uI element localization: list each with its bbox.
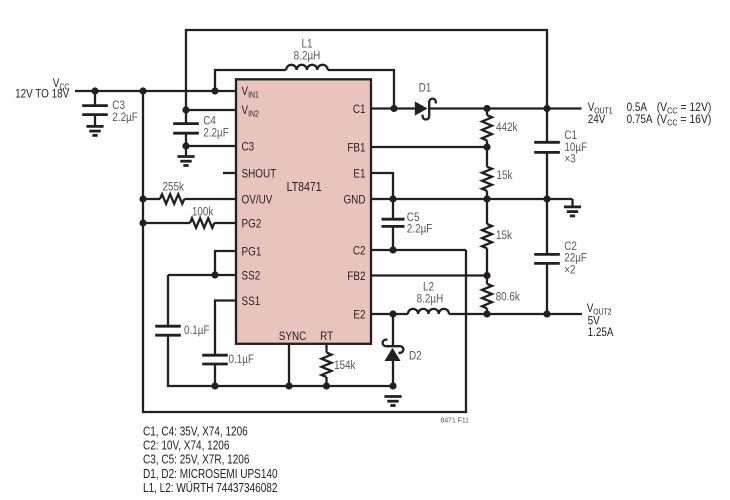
svg-text:C3: C3 — [242, 141, 255, 154]
svg-text:OV/UV: OV/UV — [242, 194, 273, 207]
svg-text:D1: D1 — [419, 82, 432, 95]
svg-text:154k: 154k — [334, 359, 356, 372]
svg-text:LT8471: LT8471 — [287, 179, 322, 194]
svg-text:255k: 255k — [162, 180, 184, 193]
svg-text:0.75A: 0.75A — [627, 113, 653, 126]
svg-text:2.2µF: 2.2µF — [203, 126, 229, 139]
svg-text:80.6k: 80.6k — [496, 290, 521, 303]
svg-text:SS2: SS2 — [242, 270, 261, 283]
svg-text:PG2: PG2 — [242, 218, 262, 231]
svg-text:15k: 15k — [496, 229, 512, 242]
svg-text:SYNC: SYNC — [279, 330, 307, 343]
svg-text:0.1µF: 0.1µF — [184, 324, 210, 337]
svg-text:E1: E1 — [353, 168, 365, 181]
svg-text:PG1: PG1 — [242, 246, 262, 259]
svg-text:2.2µF: 2.2µF — [112, 111, 138, 124]
svg-text:L1, L2: WÜRTH 74437346082: L1, L2: WÜRTH 74437346082 — [143, 481, 277, 496]
svg-text:×2: ×2 — [564, 263, 575, 276]
svg-text:8471 F11: 8471 F11 — [441, 416, 470, 424]
svg-text:E2: E2 — [353, 309, 365, 322]
svg-text:0.1µF: 0.1µF — [229, 353, 255, 366]
svg-text:C1: C1 — [353, 103, 366, 116]
svg-text:D1, D2: MICROSEMI UPS140: D1, D2: MICROSEMI UPS140 — [143, 467, 278, 482]
svg-text:RT: RT — [320, 330, 333, 343]
svg-text:×3: ×3 — [564, 153, 575, 166]
svg-text:SS1: SS1 — [242, 295, 261, 308]
svg-text:D2: D2 — [409, 350, 422, 363]
svg-text:24V: 24V — [588, 113, 606, 126]
svg-text:442k: 442k — [496, 121, 518, 134]
svg-text:8.2µH: 8.2µH — [294, 49, 321, 62]
svg-text:15k: 15k — [497, 169, 513, 182]
svg-text:C3, C5: 25V, X7R, 1206: C3, C5: 25V, X7R, 1206 — [143, 452, 249, 467]
svg-text:C1, C4: 35V, X74, 1206: C1, C4: 35V, X74, 1206 — [143, 424, 248, 439]
svg-text:12V TO 18V: 12V TO 18V — [15, 88, 70, 101]
svg-text:C2: C2 — [353, 245, 366, 258]
svg-text:FB1: FB1 — [347, 142, 365, 155]
svg-text:2.2µF: 2.2µF — [407, 223, 433, 236]
svg-text:FB2: FB2 — [347, 270, 365, 283]
svg-text:GND: GND — [343, 194, 365, 207]
svg-text:8.2µH: 8.2µH — [417, 293, 444, 306]
svg-text:1.25A: 1.25A — [588, 326, 614, 339]
svg-text:SHOUT: SHOUT — [242, 168, 277, 181]
svg-text:100k: 100k — [192, 206, 214, 219]
svg-text:(VCC = 16V): (VCC = 16V) — [657, 113, 712, 127]
svg-text:C2: 10V, X74, 1206: C2: 10V, X74, 1206 — [143, 438, 229, 453]
